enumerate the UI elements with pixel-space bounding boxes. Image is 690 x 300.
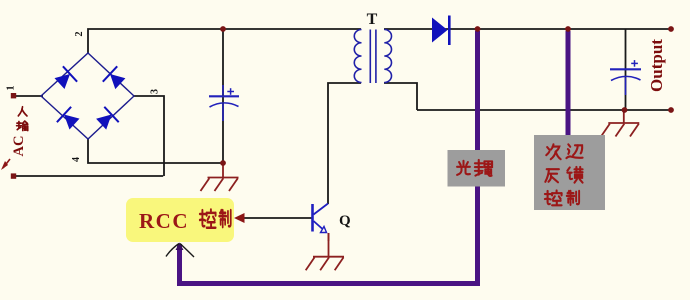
svg-text:AC: AC	[11, 136, 27, 157]
svg-text:Q: Q	[339, 213, 351, 229]
svg-text:T: T	[367, 11, 378, 28]
svg-text:3: 3	[150, 89, 161, 94]
svg-text:2: 2	[74, 32, 85, 37]
svg-text:4: 4	[71, 157, 82, 162]
svg-text:Output: Output	[647, 39, 666, 92]
svg-text:RCC: RCC	[139, 209, 189, 233]
svg-text:1: 1	[6, 86, 17, 91]
